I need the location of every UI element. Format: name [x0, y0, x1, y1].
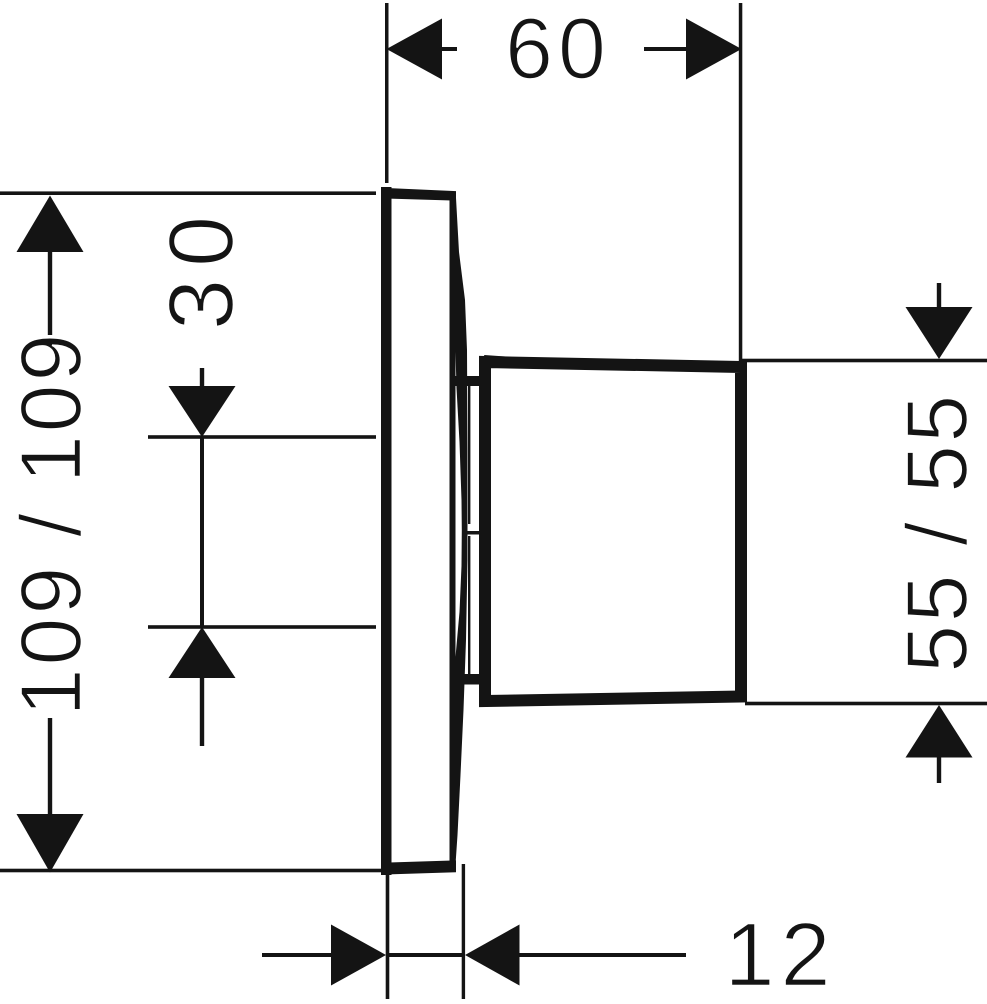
dim 55/55 bottom extension line	[745, 702, 987, 706]
handle knob top-left rim step	[484, 358, 560, 364]
dim 12 right-pointing arrow	[331, 925, 386, 986]
dim 109/109 top extension line	[0, 191, 376, 195]
dim 109/109 top arrow	[17, 196, 84, 253]
dim 55/55 top arrow tail	[937, 283, 941, 307]
dim 60 right extension line	[739, 3, 743, 362]
dim 12 left-pointing arrow	[465, 925, 520, 986]
valve sleeve top cap	[454, 376, 481, 386]
dim 30 lower arrow tail	[200, 678, 204, 746]
dim 109/109 bottom extension line	[0, 869, 382, 873]
dim 55/55 bottom arrow	[906, 705, 973, 758]
dim 30 lower arrow	[169, 627, 236, 678]
dim 12 left extension line	[386, 872, 390, 999]
escutcheon plate top edge	[381, 188, 456, 201]
dim 55/55 top extension line	[741, 359, 987, 363]
dim 55/55 bottom arrow tail	[937, 757, 941, 783]
dim 60 right arrow tail	[644, 47, 686, 51]
dim 109/109 bottom arrow tail	[48, 718, 52, 814]
dim 60 left arrow	[387, 19, 443, 80]
dim 30 connecting line	[200, 437, 204, 627]
escutcheon plate curved rim profile	[455, 198, 467, 866]
svg-text:30: 30	[151, 204, 253, 330]
escutcheon plate left edge (wall side)	[381, 187, 392, 875]
dim 12 middle segment	[386, 953, 464, 957]
valve sleeve bottom cap	[454, 674, 481, 685]
escutcheon plate bottom edge	[381, 860, 456, 874]
dim 109/109 top arrow tail	[48, 252, 52, 335]
dim 12 left lead line	[262, 953, 331, 957]
svg-text:55 / 55: 55 / 55	[890, 392, 986, 673]
dim 60 left extension line	[385, 3, 389, 183]
handle knob outline	[485, 362, 741, 701]
dim 60 left arrow tail	[442, 47, 457, 51]
dim 12 right extension line	[462, 864, 465, 999]
valve sleeve front edge upper segment	[468, 386, 470, 524]
dim 30 lower extension line	[148, 625, 376, 629]
svg-text:109 / 109: 109 / 109	[4, 331, 100, 717]
dim 109/109 bottom arrow	[17, 814, 84, 873]
escutcheon plate front face line	[450, 194, 456, 869]
dim 60 right arrow	[686, 19, 742, 80]
valve sleeve front edge lower segment	[468, 536, 470, 674]
svg-text:60: 60	[505, 1, 611, 97]
svg-text:12: 12	[724, 906, 836, 1000]
dim 12 right tail	[519, 953, 686, 957]
dim 30 upper arrow	[169, 386, 236, 437]
valve sleeve centre tick	[467, 531, 479, 535]
dim 30 upper arrow tail	[200, 368, 204, 386]
dim 30 upper extension line	[148, 435, 376, 439]
dim 55/55 top arrow	[906, 307, 973, 359]
